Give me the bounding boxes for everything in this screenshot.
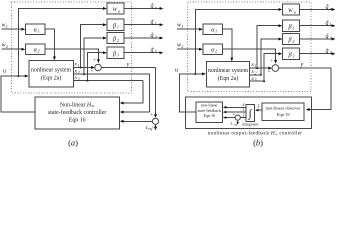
wire q2 output (a): [124, 37, 160, 39]
node x3 junction (b): [263, 80, 265, 82]
svg-text:1: 1: [215, 29, 217, 34]
svg-text:1: 1: [292, 26, 294, 31]
node x2 junction (b): [260, 74, 262, 76]
node x2 junction (a): [83, 73, 85, 75]
svg-text:3: 3: [117, 53, 119, 58]
arrow w1 into alpha1 (b): [199, 28, 203, 31]
arrow into state-feedback (b): [223, 116, 226, 119]
wire x2 up to beta2 (a): [84, 38, 103, 74]
svg-text:+: +: [150, 113, 153, 118]
svg-text:2: 2: [215, 49, 217, 54]
arrow w2 into alpha2 (b): [199, 48, 203, 51]
arrow qu (a): [160, 7, 164, 10]
wire x2 up to beta2 (b): [261, 39, 279, 75]
wire y out of sum (a): [101, 67, 155, 69]
arrow w1 into alpha1 (a): [22, 28, 26, 31]
block nonlinear system (b): [206, 62, 249, 88]
arrow u into nonlinear system (b): [202, 72, 206, 75]
svg-text:): ): [260, 138, 263, 148]
wire q3 output (a): [124, 52, 160, 54]
wire qu output (b): [300, 9, 332, 11]
svg-text:u: u: [175, 68, 178, 74]
svg-text:u: u: [118, 8, 120, 13]
wire x2 row (b): [250, 74, 261, 76]
arrow u into Wu (b): [279, 8, 283, 11]
wire w1 (b): [177, 28, 199, 30]
arrow x2 into controller (a): [120, 111, 124, 114]
svg-text:Eqn 16: Eqn 16: [69, 117, 86, 123]
wire x1 to sum (b): [250, 67, 269, 69]
arrow zref up into sum (b): [237, 120, 239, 123]
arrow noise down into sum (b): [274, 60, 277, 64]
arrow q3 (b): [332, 52, 336, 55]
block Wu weight (b): [283, 4, 300, 15]
svg-text:non-linear observer: non-linear observer: [266, 106, 302, 111]
svg-text:2: 2: [181, 44, 183, 49]
arrow zref up into sum (a): [154, 124, 157, 128]
svg-text:x̂: x̂: [242, 112, 245, 117]
summing junction zref (b): [235, 115, 240, 120]
wire x1 up to beta1 (b): [257, 26, 279, 68]
wire x3 loop down to controller (a): [123, 81, 143, 103]
dashed generalized-plant box (b): [187, 2, 311, 92]
svg-text:u: u: [155, 5, 157, 10]
svg-text:1: 1: [181, 24, 183, 29]
svg-text:3: 3: [330, 50, 332, 55]
svg-text:+: +: [270, 59, 273, 64]
block beta2 (b): [283, 34, 300, 45]
svg-text:∫: ∫: [248, 108, 253, 120]
wire xhat2 (b): [226, 111, 246, 113]
wire xhat3 to zref sum (b): [240, 117, 246, 119]
dashed generalized-plant box (a): [12, 2, 132, 93]
svg-text:x̂: x̂: [242, 107, 245, 112]
arrow alpha1 down into system (b): [230, 58, 233, 62]
svg-text:2: 2: [117, 38, 119, 43]
svg-text:2: 2: [292, 39, 294, 44]
svg-text:3: 3: [155, 49, 157, 54]
arrow x2 into beta2 (b): [279, 38, 283, 41]
arrow x3 into controller (a): [120, 102, 124, 105]
arrow alpha1 down into system (a): [53, 57, 56, 61]
svg-text:state-feedback controller: state-feedback controller: [48, 109, 106, 116]
wire alpha1 out to system top (b): [223, 29, 232, 58]
svg-text:nonlinear system: nonlinear system: [31, 67, 71, 73]
block beta1 (b): [283, 20, 300, 31]
arrow x3 into beta3 (b): [279, 52, 283, 55]
arrow y into observer (b): [306, 108, 310, 111]
block alpha2 (b): [203, 44, 223, 55]
wire xhat1 (b): [226, 106, 246, 108]
wire u up to Wu (a): [18, 9, 103, 77]
svg-text:1: 1: [6, 24, 8, 29]
arrow y down into zref sum (a): [154, 114, 157, 118]
svg-text:(Eqn 2a): (Eqn 2a): [41, 75, 61, 82]
wire w1 (a): [2, 28, 22, 30]
svg-text:Eqn 19: Eqn 19: [277, 112, 291, 117]
svg-text:integrator: integrator: [242, 122, 259, 127]
wire q1 output (b): [300, 25, 332, 27]
svg-text:Non-linear H∞: Non-linear H∞: [60, 102, 95, 108]
wire q2 output (b): [300, 38, 332, 40]
arrow q3 (a): [160, 51, 164, 54]
wire x3 row (a): [73, 80, 143, 82]
arrow u into nonlinear system (a): [25, 75, 29, 78]
box output-feedback controller outer (b): [185, 97, 311, 129]
svg-text:1: 1: [155, 21, 157, 26]
wire zref stub (b): [237, 122, 239, 125]
wire x3 up to beta3 (b): [264, 54, 279, 81]
node u junction (b): [194, 73, 196, 75]
svg-text:2: 2: [6, 44, 8, 49]
wire x1 to sum (a): [73, 67, 91, 69]
node x1 junction (b): [256, 67, 258, 69]
svg-text:x̂̇: x̂̇: [256, 104, 259, 109]
wire qu output (a): [124, 8, 160, 10]
svg-text:1: 1: [117, 25, 119, 30]
wire x2 loop down to controller (a): [123, 74, 149, 112]
block alpha2 (a): [26, 44, 46, 55]
wire q3 output (b): [300, 53, 332, 55]
arrow x1 into sum (a): [91, 66, 95, 69]
wire y loop down to zref sum (a): [155, 68, 157, 115]
node x1 junction (a): [80, 67, 82, 69]
block nonlinear state-feedback controller (a): [35, 97, 120, 129]
block beta3 (a): [107, 47, 124, 58]
arrow q2 (b): [332, 38, 336, 41]
wire y out of sum to right loop (b): [279, 68, 331, 109]
wire alpha2 out to sum circle (a): [45, 49, 98, 59]
svg-text:): ): [75, 138, 78, 148]
wire x3 row (b): [250, 80, 264, 82]
block Wu weight (a): [107, 3, 124, 14]
svg-text:(Eqn 2a): (Eqn 2a): [218, 75, 238, 82]
wire zref sum to state-feedback (b): [226, 117, 235, 119]
wire u feedback loop left (b): [180, 74, 203, 112]
svg-text:2: 2: [38, 49, 40, 54]
arrow q2 (a): [160, 37, 164, 40]
block nonlinear system (a): [29, 61, 74, 88]
arrow qu (b): [332, 8, 336, 11]
block alpha1 (b): [203, 24, 223, 35]
block beta2 (a): [107, 33, 124, 44]
wire zref stub up (a): [155, 128, 157, 130]
block nonlinear state-feedback (b): [196, 102, 222, 122]
wire q1 output (a): [124, 24, 160, 26]
wire w2 (b): [177, 48, 199, 50]
wire alpha2 out to sum circle (b): [223, 49, 276, 60]
summing junction y (a): [95, 64, 102, 71]
node u junction (a): [17, 75, 19, 77]
svg-text:nonlinear output-feedback H∞ c: nonlinear output-feedback H∞ controller: [208, 130, 303, 137]
svg-text:+: +: [90, 69, 93, 74]
arrow xhat2 into state-feedback (b): [223, 111, 226, 114]
arrow u into Wu (a): [103, 7, 107, 10]
svg-text:y: y: [126, 62, 130, 68]
block nonlinear observer (b): [262, 103, 304, 121]
svg-text:1: 1: [330, 22, 332, 27]
arrow x1 into beta1 (b): [279, 24, 283, 27]
node x3 junction (a): [86, 80, 88, 82]
arrow xhat1 into state-feedback (b): [223, 106, 226, 109]
block beta3 (b): [283, 48, 300, 59]
wire zref sum to controller (a): [123, 120, 152, 122]
arrow q1 (a): [160, 23, 164, 26]
wire u up to Wu (b): [195, 10, 278, 74]
svg-text:+: +: [93, 59, 96, 64]
svg-text:u: u: [3, 69, 6, 75]
wire x3 up to beta3 (a): [87, 53, 103, 81]
arrow xhatdot into integrator (b): [255, 109, 258, 112]
wire x1 up to beta1 (a): [81, 25, 104, 68]
arrow into controller third input (a): [120, 120, 124, 123]
arrow w2 into alpha2 (a): [22, 48, 26, 51]
arrow noise down into sum (a): [97, 59, 100, 63]
block alpha1 (a): [26, 24, 46, 35]
svg-text:u: u: [294, 9, 296, 14]
wire w2 (a): [2, 48, 22, 50]
svg-text:2: 2: [155, 34, 157, 39]
summing junction y (b): [272, 65, 279, 72]
wire x2 row (a): [73, 73, 149, 75]
svg-text:ref: ref: [148, 126, 153, 131]
svg-text:y: y: [300, 62, 304, 68]
wire u feedback loop left (a): [1, 76, 35, 112]
svg-text:2: 2: [330, 35, 332, 40]
summing junction zref (a): [152, 118, 158, 124]
svg-text:3: 3: [292, 54, 294, 59]
arrow x1 into beta1 (a): [103, 23, 107, 26]
wire xhatdot observer to integrator (b): [258, 109, 262, 111]
svg-text:nonlinear system: nonlinear system: [208, 68, 248, 74]
arrow x2 into beta2 (a): [103, 37, 107, 40]
arrow x1 into sum (b): [268, 67, 272, 70]
svg-text:+: +: [268, 70, 271, 75]
wire alpha1 out to system top (a): [45, 29, 54, 57]
block beta1 (a): [107, 19, 124, 30]
block integrator (b): [246, 105, 254, 122]
svg-text:u: u: [330, 6, 332, 11]
arrow x3 into beta3 (a): [103, 51, 107, 54]
svg-text:z: z: [230, 120, 233, 125]
arrow q1 (b): [332, 24, 336, 27]
svg-text:Eqn 16: Eqn 16: [204, 113, 216, 118]
svg-text:1: 1: [38, 29, 40, 34]
